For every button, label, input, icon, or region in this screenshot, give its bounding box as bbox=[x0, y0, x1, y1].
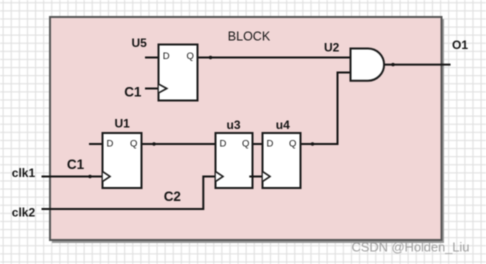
svg-text:D: D bbox=[267, 138, 274, 149]
junction on clk1 wire bbox=[88, 175, 91, 178]
block BLOCK (shadow) bbox=[52, 19, 443, 242]
wire u3.Q to u4.D bbox=[253, 143, 262, 145]
svg-text:D: D bbox=[107, 138, 114, 149]
junction on U1.Q wire bbox=[152, 142, 155, 145]
svg-text:Q: Q bbox=[187, 51, 194, 62]
junction on u4.Q wire bbox=[311, 142, 314, 145]
wire U1 D stub bbox=[89, 143, 102, 145]
svg-text:Q: Q bbox=[242, 138, 249, 149]
svg-text:U5: U5 bbox=[132, 36, 148, 50]
and-gate U2 bbox=[351, 49, 385, 81]
svg-text:u4: u4 bbox=[276, 118, 290, 132]
wire U5 clock stub net C1 bbox=[145, 88, 159, 90]
wire U5.Q to U2 input bbox=[198, 57, 350, 59]
svg-text:BLOCK: BLOCK bbox=[228, 30, 271, 44]
svg-text:Q: Q bbox=[289, 138, 296, 149]
wire clk2 net C2 bbox=[42, 177, 263, 210]
svg-text:u3: u3 bbox=[227, 118, 241, 132]
flip-flop U5 bbox=[159, 45, 198, 101]
flip-flop u4 bbox=[263, 133, 301, 188]
junction on U5.Q wire bbox=[209, 56, 212, 59]
svg-text:C1: C1 bbox=[67, 157, 85, 172]
svg-text:U1: U1 bbox=[115, 117, 131, 131]
svg-text:CSDN @Holden_Liu: CSDN @Holden_Liu bbox=[352, 240, 470, 255]
svg-text:clk2: clk2 bbox=[12, 206, 36, 220]
svg-text:C1: C1 bbox=[124, 85, 142, 100]
flip-flop u3 bbox=[216, 133, 253, 188]
wire U2 output to O1 bbox=[384, 64, 451, 66]
svg-text:C2: C2 bbox=[164, 189, 181, 204]
junction on U2 output bbox=[391, 63, 394, 66]
wire U5 D stub bbox=[145, 57, 159, 59]
wire C2 stub into u4 clock (over u3 edge) bbox=[249, 176, 262, 178]
svg-text:Q: Q bbox=[130, 138, 137, 149]
svg-text:clk1: clk1 bbox=[12, 166, 36, 180]
flip-flop U1 bbox=[103, 133, 142, 188]
wire clk1 net C1 bbox=[42, 176, 103, 178]
wire U1.Q to u3.D bbox=[142, 143, 215, 145]
svg-text:U2: U2 bbox=[324, 41, 340, 55]
svg-text:O1: O1 bbox=[452, 38, 468, 52]
svg-text:D: D bbox=[220, 138, 227, 149]
wire u4.Q to U2 input bbox=[301, 73, 350, 145]
block BLOCK (body) bbox=[50, 17, 442, 240]
svg-text:D: D bbox=[163, 51, 170, 62]
